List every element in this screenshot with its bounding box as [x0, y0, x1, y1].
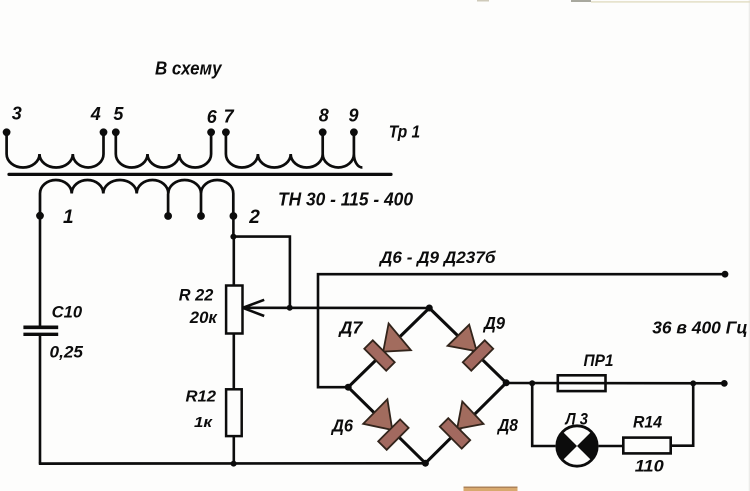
svg-text:Д7: Д7 — [337, 318, 363, 338]
svg-text:5: 5 — [113, 104, 124, 124]
terminal 2 dot — [230, 212, 238, 220]
svg-text:Д6: Д6 — [330, 416, 353, 436]
terminal 9 dot — [350, 128, 358, 136]
wire branch right from node 2a — [233, 237, 290, 308]
bridge edge bottom-left — [348, 387, 425, 463]
svg-text:Л 3: Л 3 — [564, 410, 589, 429]
wire node 2a to R22 top — [233, 237, 236, 286]
terminal 8 dot — [319, 128, 327, 136]
fuse PR1 body — [558, 375, 606, 391]
svg-text:6: 6 — [207, 107, 218, 127]
terminal 1 dot — [36, 212, 44, 220]
wire lamp branch down — [532, 383, 555, 446]
primary winding section terminals 3-4 — [7, 134, 104, 168]
resistor R12 body — [226, 389, 242, 436]
terminal 4 dot — [100, 128, 108, 136]
terminal 5 dot — [112, 128, 120, 136]
primary winding section terminals 5-6 — [116, 134, 211, 168]
lamp L3 — [557, 426, 597, 466]
potentiometer R22 body — [226, 286, 242, 334]
svg-text:1к: 1к — [194, 414, 214, 431]
junction dot R12 rail — [231, 461, 237, 467]
svg-text:20к: 20к — [189, 308, 218, 327]
svg-text:1: 1 — [63, 207, 74, 228]
wire bottom rail — [39, 462, 426, 465]
top edge artifact line — [477, 0, 750, 3]
secondary tap dot b — [197, 212, 205, 220]
svg-text:9: 9 — [349, 106, 359, 126]
junction dot lamp branch — [529, 380, 535, 386]
svg-text:R12: R12 — [186, 389, 217, 406]
junction dot bridge left — [345, 384, 352, 391]
svg-text:С10: С10 — [52, 303, 83, 321]
svg-text:ПР1: ПР1 — [584, 351, 614, 370]
diode D7 — [364, 324, 411, 371]
wire R14 up to fuse wire — [671, 383, 694, 445]
svg-text:3: 3 — [12, 104, 22, 124]
wire terminal 2 down — [232, 216, 235, 237]
svg-text:7: 7 — [224, 107, 235, 127]
svg-text:Тр 1: Тр 1 — [389, 121, 421, 141]
diode D6 — [363, 399, 408, 450]
terminal 7 dot — [222, 128, 230, 136]
capacitor C10 — [23, 327, 58, 334]
secondary winding 1-2 — [40, 180, 233, 216]
terminal 6 dot — [207, 128, 215, 136]
terminal dot output bottom — [721, 380, 728, 387]
resistor R14 body — [623, 438, 670, 454]
svg-text:В схему: В схему — [155, 59, 222, 79]
wire bridge right to output — [506, 382, 724, 385]
svg-text:4: 4 — [90, 104, 101, 124]
bridge edge bottom-right — [425, 383, 506, 463]
secondary tap stub a — [167, 194, 170, 217]
wire left rail upper — [39, 216, 42, 326]
wire bridge left vertex to top rail — [318, 274, 725, 387]
svg-text:110: 110 — [635, 457, 665, 476]
bridge edge top-left — [348, 308, 429, 387]
wire lamp to R14 — [599, 445, 624, 448]
R22 wiper arrow — [243, 300, 430, 316]
svg-text:2: 2 — [248, 207, 260, 228]
svg-text:36 в 400 Гц: 36 в 400 Гц — [652, 318, 748, 338]
svg-text:Д8: Д8 — [496, 415, 518, 435]
svg-text:8: 8 — [319, 106, 329, 126]
wire R12 bottom to rail — [233, 436, 236, 464]
terminal dot output top — [722, 271, 729, 278]
junction dot bridge top — [426, 305, 433, 312]
bottom edge tan block — [464, 487, 518, 491]
svg-text:Д6 - Д9 Д237б: Д6 - Д9 Д237б — [378, 248, 496, 267]
svg-text:Д9: Д9 — [482, 313, 505, 333]
svg-text:ТН 30 - 115 - 400: ТН 30 - 115 - 400 — [278, 190, 413, 210]
bridge edge top-right — [429, 308, 506, 383]
svg-text:R 22: R 22 — [179, 286, 214, 305]
secondary tap stub b — [200, 194, 203, 217]
svg-text:R14: R14 — [633, 413, 663, 432]
junction dot bridge right — [503, 379, 510, 386]
junction dot R14 branch — [690, 380, 696, 386]
junction dot bridge bottom — [422, 460, 429, 467]
transformer Tr1 core bar — [9, 173, 391, 176]
terminal 3 dot — [3, 128, 11, 136]
diode D8 — [440, 402, 484, 449]
right edge faint line — [749, 0, 750, 491]
wire R22 bottom to R12 top — [233, 334, 236, 390]
junction dot wiper node — [287, 305, 293, 311]
junction dot node 2a — [230, 234, 236, 240]
primary winding section terminals 7-9 — [226, 134, 363, 168]
diode D9 — [448, 325, 494, 371]
secondary tap dot a — [164, 212, 172, 220]
wire left rail lower — [39, 336, 42, 464]
svg-text:0,25: 0,25 — [50, 344, 84, 362]
